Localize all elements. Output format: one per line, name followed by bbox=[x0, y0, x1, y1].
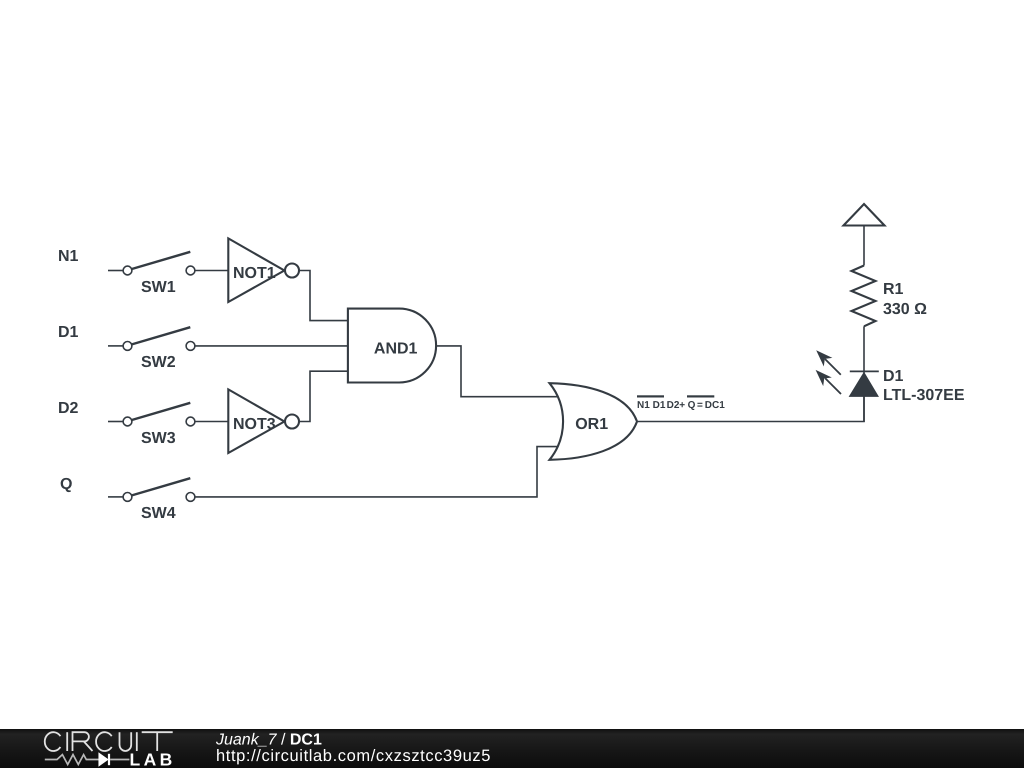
svg-text:NOT1: NOT1 bbox=[233, 265, 276, 282]
power supply V+ bbox=[844, 204, 885, 226]
or-gate OR1 bbox=[550, 383, 638, 460]
svg-text:OR1: OR1 bbox=[575, 416, 608, 433]
wire NOT3 to AND1 bottom input bbox=[299, 371, 348, 421]
svg-text:AND1: AND1 bbox=[374, 341, 418, 358]
label logic expression N1 D1 D2 + Q = DC1 bbox=[637, 395, 725, 411]
svg-text:SW2: SW2 bbox=[141, 354, 176, 371]
switch SW1 bbox=[108, 252, 195, 296]
svg-text:SW3: SW3 bbox=[141, 430, 176, 447]
wire SW1 to NOT1 bbox=[195, 270, 229, 272]
svg-text:SW4: SW4 bbox=[141, 505, 176, 522]
inverter NOT3 bbox=[228, 389, 299, 453]
and-gate AND1 bbox=[348, 309, 436, 383]
svg-text:330 Ω: 330 Ω bbox=[883, 301, 927, 318]
svg-text:LAB: LAB bbox=[130, 750, 176, 768]
wire SW2 to AND1 middle input bbox=[195, 345, 348, 347]
svg-text:LTL-307EE: LTL-307EE bbox=[883, 387, 965, 404]
svg-text:D1: D1 bbox=[58, 324, 79, 341]
switch SW2 bbox=[108, 327, 195, 371]
LED D1 bbox=[816, 350, 965, 404]
logo squiggle resistor-diode bbox=[45, 754, 130, 765]
svg-text:N1: N1 bbox=[58, 248, 79, 265]
wire NOT1 to AND1 top input bbox=[299, 271, 348, 321]
inverter NOT1 bbox=[228, 238, 299, 302]
resistor R1 bbox=[852, 266, 928, 327]
svg-text:SW1: SW1 bbox=[141, 279, 176, 296]
wire V+ to R1 bbox=[863, 226, 865, 266]
switch SW4 bbox=[108, 478, 195, 522]
svg-text:D2: D2 bbox=[58, 400, 79, 417]
svg-text:D1: D1 bbox=[883, 368, 904, 385]
svg-text:N1D1D2+Q=DC1: N1D1D2+Q=DC1 bbox=[637, 400, 725, 411]
svg-text:Juank_7 / DC1: Juank_7 / DC1 bbox=[215, 732, 322, 749]
wire SW4 to OR1 bottom input bbox=[195, 447, 562, 497]
svg-text:NOT3: NOT3 bbox=[233, 416, 276, 433]
svg-text:R1: R1 bbox=[883, 281, 904, 298]
wire SW3 to NOT3 bbox=[195, 421, 229, 423]
wire OR1 output to LED bbox=[637, 396, 864, 422]
svg-text:Q: Q bbox=[60, 476, 72, 493]
footer bar bbox=[0, 729, 1024, 768]
svg-text:http://circuitlab.com/cxzsztcc: http://circuitlab.com/cxzsztcc39uz5 bbox=[216, 747, 491, 765]
wire AND1 to OR1 top input bbox=[436, 346, 562, 397]
wire D1 to OR1 output net bbox=[863, 396, 865, 422]
switch SW3 bbox=[108, 403, 195, 447]
logo CIRCUIT lettering bbox=[45, 732, 173, 751]
wire R1 to D1 bbox=[863, 326, 865, 373]
